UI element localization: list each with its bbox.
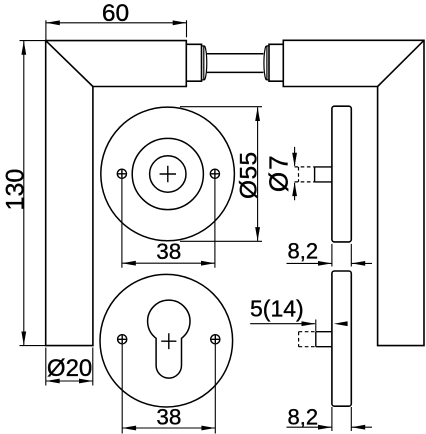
top rosette middle circle — [132, 138, 203, 209]
bottom rosette right screw — [211, 335, 220, 344]
svg-text:60: 60 — [102, 0, 129, 27]
svg-text:Ø20: Ø20 — [47, 355, 92, 382]
spindle shaft — [207, 54, 264, 73]
bottom side view cylinder stub — [316, 332, 332, 347]
top stub hidden square (dashed) — [295, 167, 315, 182]
top side view spindle stub — [315, 167, 332, 182]
top rosette outer circle — [101, 107, 235, 241]
left lever front view outline — [46, 41, 187, 346]
left lever neck diagonal — [46, 41, 93, 87]
right lever neck diagonal — [378, 40, 424, 86]
right spindle collar cylinder — [269, 44, 283, 81]
svg-text:Ø7: Ø7 — [264, 153, 294, 192]
dimension 38 top — [122, 179, 215, 268]
bottom rosette euro profile cylinder hole — [148, 300, 190, 378]
left bearing ring — [202, 46, 207, 80]
label 5(14) — [250, 320, 316, 332]
dimension D7 — [294, 147, 296, 200]
svg-text:130: 130 — [1, 169, 29, 211]
svg-text:Ø55: Ø55 — [236, 151, 263, 199]
bottom rosette left screw — [118, 335, 127, 344]
top rosette right screw — [210, 169, 219, 178]
right lever front view outline — [283, 40, 424, 345]
svg-text:38: 38 — [156, 239, 181, 264]
svg-text:5(14): 5(14) — [250, 295, 304, 321]
dimension D55 — [180, 107, 262, 242]
dimension 130 — [20, 41, 46, 346]
bottom rosette center cross — [161, 333, 176, 349]
right bearing ring — [264, 46, 269, 80]
top rosette left screw — [117, 169, 126, 178]
svg-text:38: 38 — [156, 404, 181, 429]
dimension 38 bottom — [122, 344, 215, 433]
dimension 8,2 bottom — [287, 407, 373, 431]
left spindle collar cylinder — [186, 44, 201, 81]
bottom rosette outer circle — [100, 274, 233, 407]
bottom stub hidden part (dashed) — [299, 332, 316, 347]
top rosette side view bar — [332, 106, 351, 242]
dimension 60 — [46, 20, 187, 40]
dimension 8,2 top — [287, 244, 373, 267]
top rosette spindle bore circle — [150, 156, 186, 192]
dimension D20 — [46, 348, 93, 386]
svg-text:8,2: 8,2 — [288, 239, 319, 264]
bottom rosette side view bar — [332, 271, 351, 406]
top rosette center cross — [160, 166, 176, 182]
svg-text:8,2: 8,2 — [288, 404, 319, 429]
